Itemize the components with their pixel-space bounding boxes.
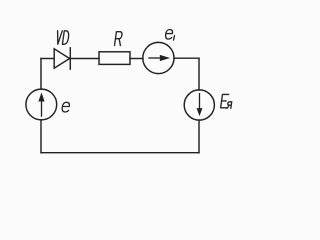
source E_ya circle xyxy=(184,90,214,120)
wire diode cathode to resistor xyxy=(70,58,99,60)
arrow in source e xyxy=(39,94,43,116)
source e_i circle xyxy=(143,42,174,73)
wire top-left (corner to diode anode) xyxy=(41,58,54,60)
wire bottom xyxy=(41,152,199,154)
label R xyxy=(115,32,123,46)
resistor R xyxy=(99,52,130,65)
arrow in source E_ya xyxy=(198,93,202,114)
wire source e_i to top-right corner xyxy=(174,57,199,59)
wire right vertical upper xyxy=(198,58,200,90)
wire right vertical lower xyxy=(198,120,200,153)
wire left vertical upper xyxy=(40,59,42,90)
diode VD xyxy=(54,48,70,69)
label E_ya xyxy=(221,94,233,108)
label VD xyxy=(56,31,70,45)
wire left vertical lower xyxy=(40,120,42,153)
label e_i xyxy=(165,30,175,41)
wire resistor to source e_i xyxy=(130,58,143,60)
arrow in source e_i xyxy=(148,56,168,60)
label e xyxy=(62,102,70,112)
source e circle xyxy=(26,89,57,120)
